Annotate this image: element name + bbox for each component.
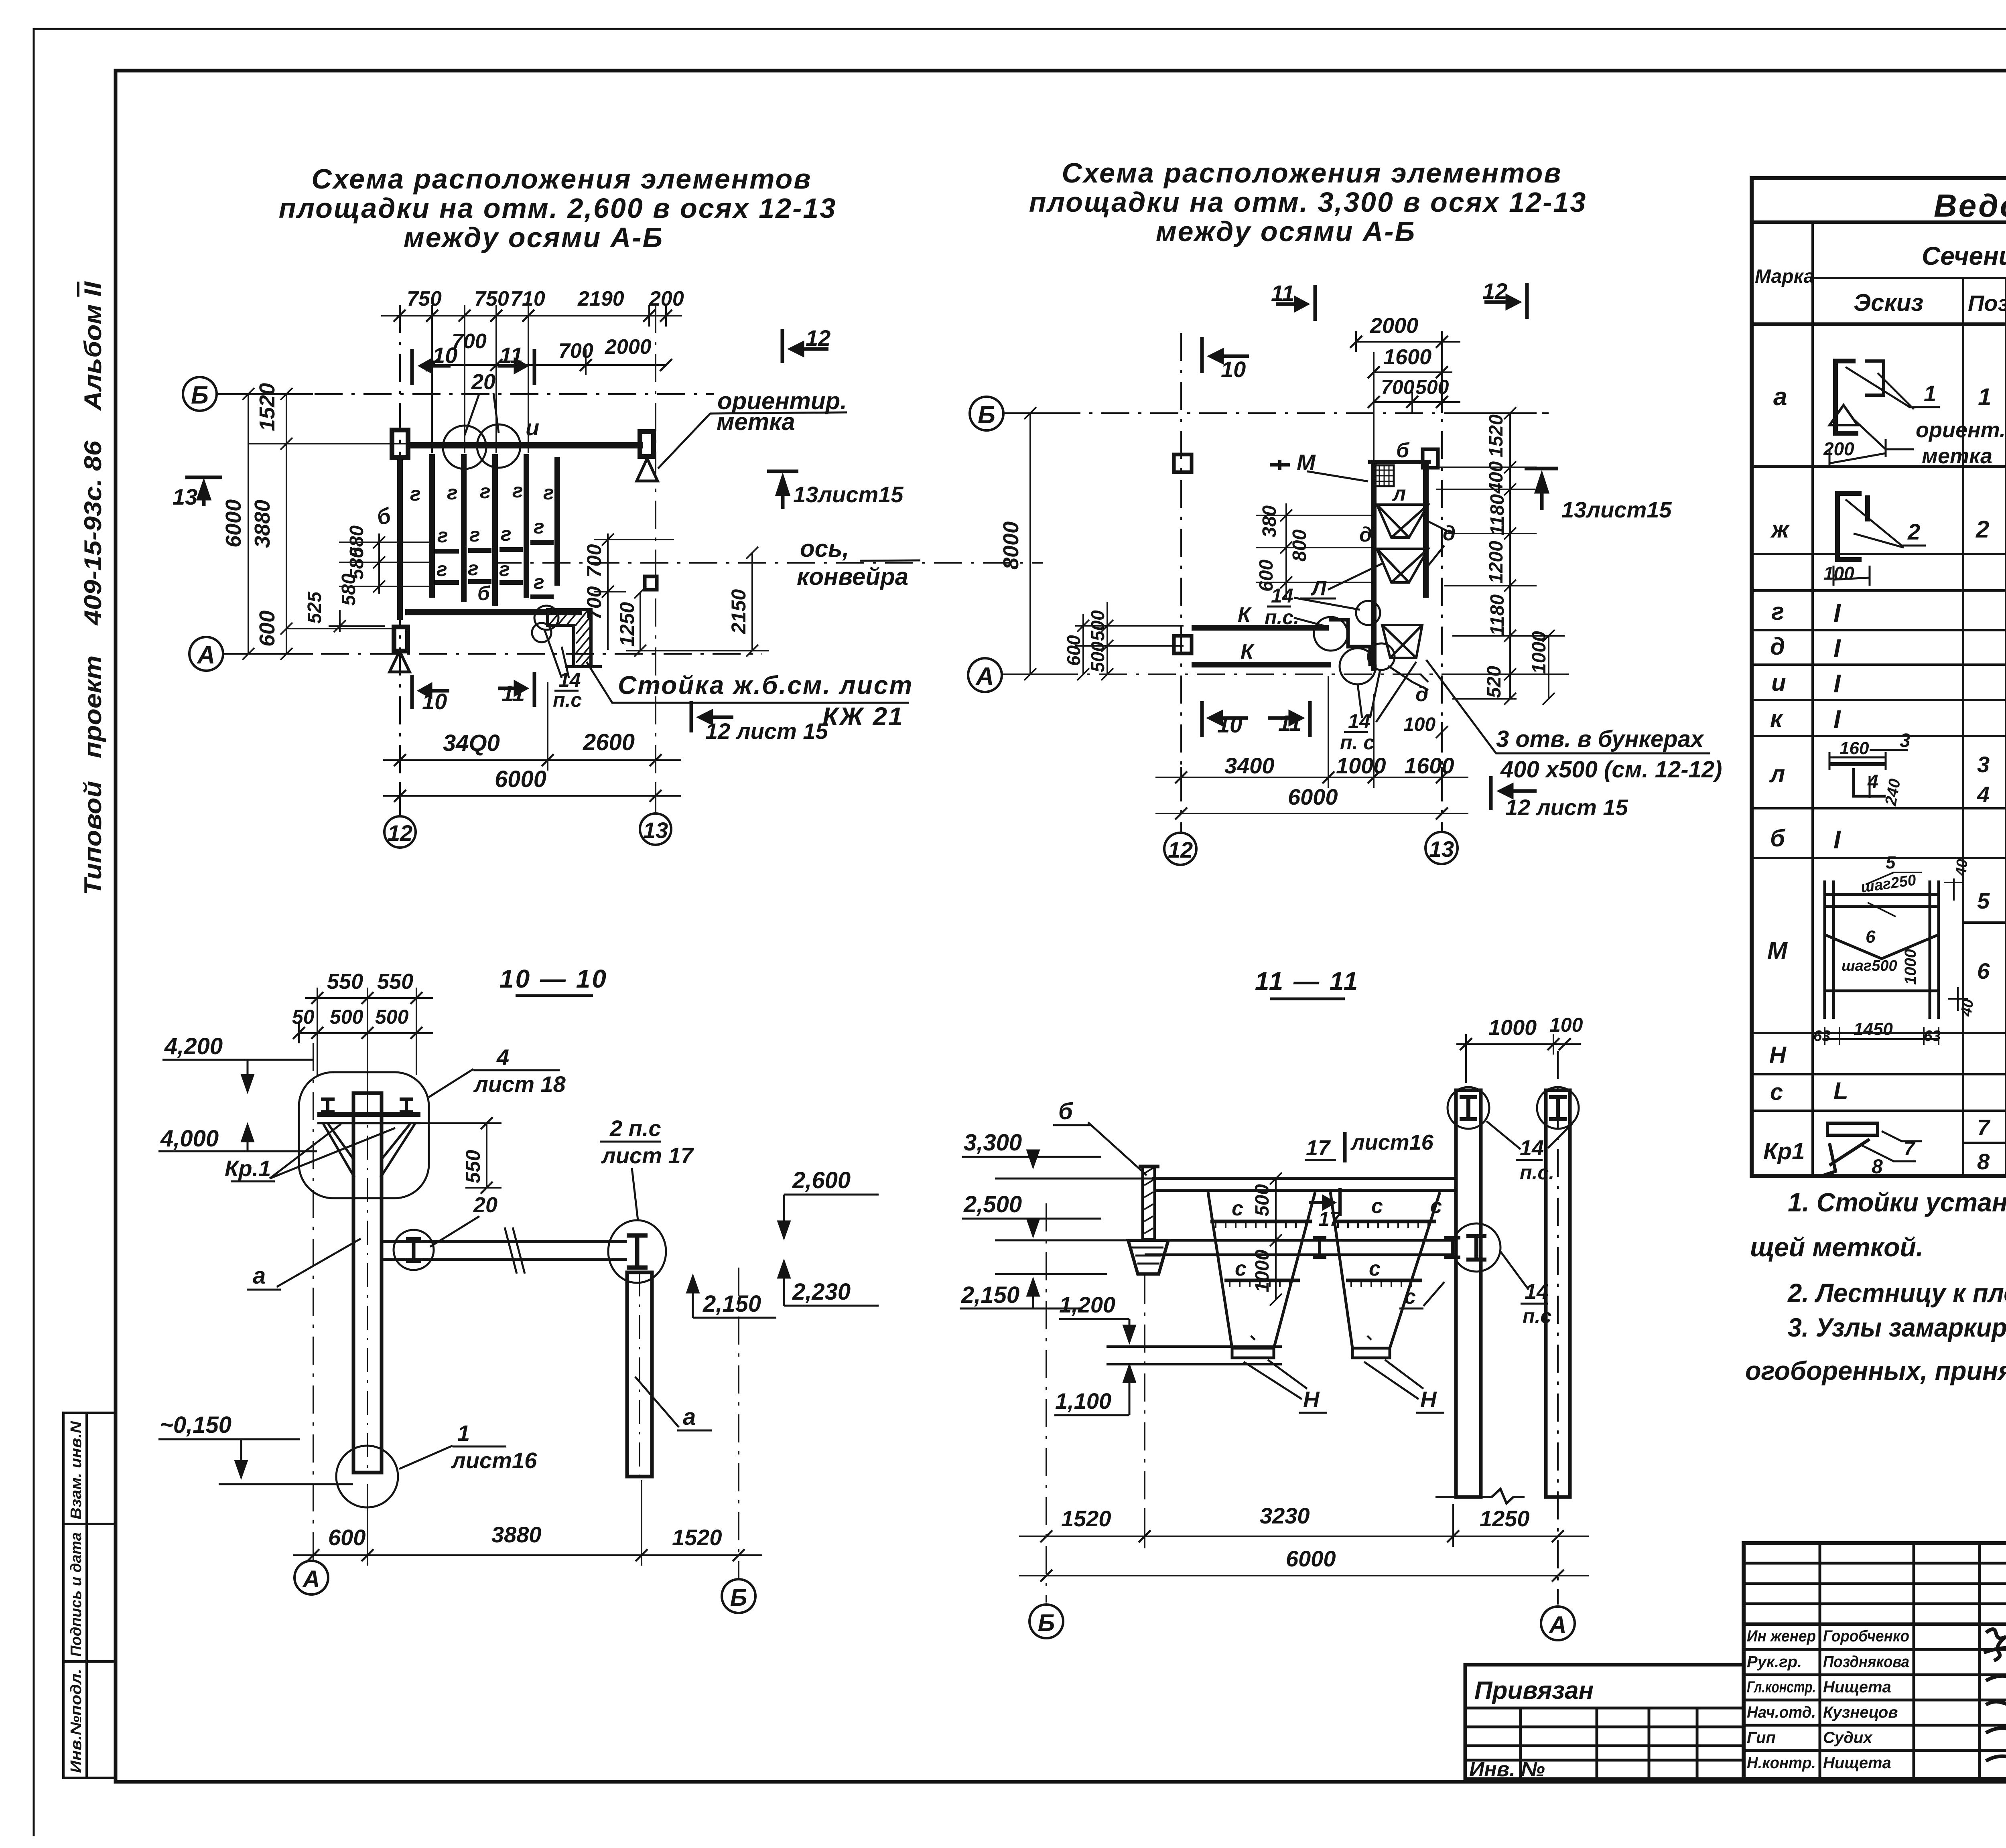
svg-text:10: 10 bbox=[1221, 357, 1246, 382]
svg-text:580: 580 bbox=[338, 574, 359, 606]
left dim chain 8000 bbox=[1001, 407, 1059, 680]
svg-text:п.с: п.с bbox=[553, 689, 582, 711]
svg-text:750: 750 bbox=[474, 287, 509, 310]
circle I at col1 mid bbox=[1452, 1223, 1500, 1272]
plan2 circle 12 bbox=[1164, 833, 1196, 865]
row a: sketch channel with orient mark bbox=[1829, 361, 1884, 433]
svg-text:6: 6 bbox=[1866, 927, 1876, 947]
svg-text:40: 40 bbox=[1953, 858, 1971, 877]
section mark 12 top bbox=[1484, 283, 1527, 319]
axis circle Б bbox=[183, 377, 217, 411]
svg-text:3880: 3880 bbox=[491, 1522, 542, 1547]
plan2 axis Б dash-dot bbox=[1003, 412, 1549, 414]
svg-text:12 лист 15: 12 лист 15 bbox=[1505, 795, 1628, 820]
top dims 1000 100 bbox=[1456, 1034, 1581, 1083]
svg-text:14: 14 bbox=[558, 669, 581, 691]
extension lines down from dims bbox=[432, 316, 528, 453]
svg-text:Эскиз: Эскиз bbox=[1854, 289, 1923, 316]
svg-text:огоборенных, приняты по с: огоборенных, приняты по серии 2,440-1 вы… bbox=[1745, 1356, 2006, 1385]
detail circle left joint with I bbox=[394, 1230, 434, 1270]
svg-text:4: 4 bbox=[1867, 771, 1878, 793]
platform right edge beam bbox=[1423, 460, 1429, 598]
staff column lines bbox=[1819, 1543, 1821, 1779]
svg-text:750: 750 bbox=[407, 287, 442, 310]
svg-text:380: 380 bbox=[1259, 505, 1280, 538]
section mark 11 top bbox=[497, 349, 534, 385]
row л: эскиз tee sketch bbox=[1829, 764, 1886, 796]
mark 12 лист 15 bbox=[691, 701, 733, 732]
svg-text:5: 5 bbox=[1977, 888, 1990, 913]
svg-text:14: 14 bbox=[1525, 1280, 1549, 1304]
beam break symbol bbox=[505, 1227, 525, 1274]
plan2 circle А bbox=[968, 658, 1002, 692]
svg-text:20: 20 bbox=[473, 1193, 497, 1217]
node circles bbox=[1356, 601, 1380, 625]
bunker 1 mesh lines bbox=[1210, 1220, 1312, 1223]
bottom beam б bbox=[405, 609, 582, 615]
svg-text:3. Узлы замаркированные на: 3. Узлы замаркированные на данном листе … bbox=[1788, 1312, 2006, 1342]
svg-text:с: с bbox=[1369, 1257, 1381, 1280]
second dim line 700 700 2000 bbox=[432, 364, 666, 366]
axis Б dash-dot bbox=[217, 393, 714, 395]
svg-text:13лист15: 13лист15 bbox=[793, 482, 904, 507]
svg-text:метка: метка bbox=[1922, 444, 1992, 468]
svg-text:10 — 10: 10 — 10 bbox=[499, 964, 608, 993]
svg-text:А: А bbox=[197, 641, 215, 669]
svg-text:500: 500 bbox=[1087, 610, 1108, 641]
svg-text:7: 7 bbox=[1977, 1115, 1991, 1140]
svg-text:Ведомость элементов: Ведомость элементов bbox=[1934, 188, 2006, 223]
svg-text:А: А bbox=[1548, 1611, 1566, 1638]
column 1 bbox=[1456, 1090, 1481, 1497]
svg-text:700: 700 bbox=[583, 544, 605, 578]
svg-text:Нищета: Нищета bbox=[1823, 1678, 1891, 1696]
svg-text:550: 550 bbox=[327, 970, 363, 994]
svg-text:525: 525 bbox=[304, 591, 325, 624]
svg-text:11: 11 bbox=[499, 343, 523, 368]
mark 12 лист 15 bottom bbox=[1491, 776, 1537, 810]
svg-text:Поз: Поз bbox=[1968, 290, 2006, 316]
beam К upper bbox=[1192, 625, 1329, 631]
column 2 bbox=[1546, 1090, 1570, 1497]
right column а bbox=[627, 1272, 652, 1477]
dim 580 x3 left bbox=[339, 534, 432, 594]
svg-text:Н.контр.: Н.контр. bbox=[1747, 1754, 1816, 1772]
staff grid upper empty rows bbox=[1744, 1562, 2006, 1565]
svg-text:100: 100 bbox=[1823, 563, 1854, 584]
platform left edge beam bbox=[1371, 460, 1377, 671]
bottom dim 3400 2600 bbox=[383, 682, 681, 771]
svg-text:600: 600 bbox=[1063, 635, 1084, 666]
svg-text:г: г bbox=[1771, 598, 1784, 625]
svg-text:Схема расположения элементо: Схема расположения элементов bbox=[1062, 157, 1562, 189]
svg-text:г: г bbox=[437, 524, 448, 547]
svg-text:1520: 1520 bbox=[1486, 414, 1507, 457]
svg-text:г: г bbox=[499, 558, 510, 580]
svg-text:с: с bbox=[1430, 1195, 1442, 1218]
svg-text:г: г bbox=[512, 479, 523, 502]
svg-text:600: 600 bbox=[255, 611, 279, 647]
svg-text:и: и bbox=[1771, 669, 1786, 696]
svg-text:14: 14 bbox=[1520, 1136, 1544, 1160]
svg-text:6: 6 bbox=[1977, 958, 1990, 984]
svg-text:Судих: Судих bbox=[1823, 1729, 1873, 1747]
bottom dims 600 3880 1520 bbox=[293, 1480, 762, 1566]
svg-text:щей меткой.: щей меткой. bbox=[1750, 1232, 1923, 1262]
svg-text:11: 11 bbox=[1278, 710, 1301, 736]
svg-text:160: 160 bbox=[1840, 738, 1869, 758]
svg-text:г: г bbox=[468, 557, 479, 580]
svg-text:500: 500 bbox=[375, 1006, 409, 1028]
svg-text:500: 500 bbox=[1415, 376, 1449, 398]
svg-text:с: с bbox=[1770, 1079, 1783, 1105]
svg-text:п.с.: п.с. bbox=[1265, 606, 1299, 629]
svg-text:10: 10 bbox=[432, 343, 457, 368]
svg-text:5: 5 bbox=[1886, 853, 1896, 872]
bunker 1 bbox=[1208, 1192, 1315, 1358]
svg-text:Гип: Гип bbox=[1747, 1729, 1776, 1747]
row ж: sketch leader bbox=[1846, 499, 1926, 548]
svg-text:11: 11 bbox=[1271, 280, 1294, 306]
top dimension line 750 750 710 2190 200 bbox=[381, 305, 682, 453]
svg-text:700: 700 bbox=[1381, 376, 1415, 398]
г beams vertical (5) bbox=[432, 454, 557, 606]
axis А dash-dot bbox=[223, 653, 762, 655]
axis Б vertical dash-dot bbox=[1046, 1203, 1047, 1603]
svg-text:г: г bbox=[501, 523, 512, 545]
svg-text:3: 3 bbox=[1900, 730, 1911, 751]
svg-text:200: 200 bbox=[1823, 438, 1854, 459]
svg-text:13: 13 bbox=[173, 484, 197, 509]
svg-text:2,500: 2,500 bbox=[963, 1191, 1022, 1217]
svg-text:I: I bbox=[1833, 634, 1841, 663]
svg-text:Б: Б bbox=[1038, 1609, 1055, 1636]
svg-text:2000: 2000 bbox=[1370, 314, 1418, 338]
svg-text:Позднякова: Позднякова bbox=[1823, 1653, 1909, 1671]
platform top edge bbox=[1368, 460, 1431, 464]
svg-text:б: б bbox=[1058, 1098, 1074, 1124]
svg-text:Нищета: Нищета bbox=[1823, 1754, 1891, 1772]
conveyor axis dash-dot bbox=[493, 562, 1043, 564]
svg-text:лист 17: лист 17 bbox=[601, 1143, 694, 1168]
label М with tick bbox=[1270, 460, 1290, 470]
axis circle 12 bbox=[384, 816, 416, 848]
svg-text:700: 700 bbox=[583, 586, 605, 620]
svg-text:12 лист 15: 12 лист 15 bbox=[705, 718, 828, 744]
plan2 axis А dash-dot bbox=[1001, 673, 1553, 675]
svg-text:лист 18: лист 18 bbox=[473, 1071, 566, 1097]
svg-text:Привязан: Привязан bbox=[1474, 1677, 1594, 1704]
svg-text:100: 100 bbox=[1549, 1014, 1583, 1036]
svg-text:1520: 1520 bbox=[255, 383, 279, 431]
svg-text:3 отв. в бункерах: 3 отв. в бункерах bbox=[1496, 726, 1705, 752]
section mark 10 bbox=[1202, 337, 1249, 373]
svg-text:между осями А-Б: между осями А-Б bbox=[1156, 216, 1416, 247]
svg-text:800: 800 bbox=[1289, 529, 1310, 562]
svg-text:А: А bbox=[302, 1566, 320, 1592]
svg-text:а: а bbox=[1773, 383, 1787, 411]
stamp box Подпись и дата bbox=[63, 1524, 116, 1661]
svg-text:а: а bbox=[253, 1263, 266, 1289]
section marks 10 11 bottom bbox=[1202, 701, 1310, 737]
svg-text:8: 8 bbox=[1872, 1155, 1883, 1178]
mesh hatched square bbox=[1375, 465, 1394, 486]
signatures squiggles bbox=[1984, 1629, 2006, 1769]
leader 3 отв bbox=[1426, 660, 1710, 753]
svg-text:500: 500 bbox=[330, 1006, 363, 1028]
dim 500 1000 rotated bbox=[1270, 1172, 1282, 1306]
svg-text:63: 63 bbox=[1924, 1028, 1941, 1045]
svg-text:1250: 1250 bbox=[616, 602, 638, 647]
beam и bbox=[409, 442, 643, 448]
svg-text:550: 550 bbox=[462, 1150, 484, 1183]
svg-text:2600: 2600 bbox=[583, 729, 635, 755]
I symbol on mid beam bbox=[1313, 1238, 1326, 1257]
dim 1250 bbox=[626, 586, 769, 657]
svg-text:13: 13 bbox=[643, 818, 668, 843]
column 12/Б square bbox=[392, 430, 408, 457]
section mark 12 top right bbox=[782, 329, 828, 363]
svg-text:1600: 1600 bbox=[1404, 753, 1454, 778]
svg-text:1000: 1000 bbox=[1336, 753, 1386, 778]
stamp box Взам. инв. N bbox=[63, 1413, 116, 1524]
rail I-symbol right bbox=[400, 1099, 413, 1112]
section mark 13 left bbox=[185, 477, 222, 506]
svg-text:1000: 1000 bbox=[1902, 949, 1919, 985]
svg-text:Н: Н bbox=[1420, 1387, 1437, 1412]
svg-text:п.с: п.с bbox=[1523, 1305, 1551, 1327]
svg-text:13лист15: 13лист15 bbox=[1561, 497, 1672, 522]
svg-text:Б: Б bbox=[978, 401, 995, 429]
svg-text:Подпись и дата: Подпись и дата bbox=[68, 1532, 85, 1657]
dim 600 bottom left bbox=[286, 628, 405, 629]
svg-text:3880: 3880 bbox=[250, 500, 274, 548]
svg-text:14: 14 bbox=[1348, 710, 1370, 732]
svg-text:8000: 8000 bbox=[999, 521, 1023, 570]
svg-text:1180: 1180 bbox=[1487, 594, 1508, 636]
svg-text:Н: Н bbox=[1769, 1042, 1787, 1068]
bunker funnel 3 lower bbox=[1382, 625, 1422, 658]
svg-text:Инв. №: Инв. № bbox=[1469, 1758, 1545, 1781]
svg-text:17: 17 bbox=[1318, 1208, 1342, 1230]
bottom dim 6000 bbox=[1155, 807, 1468, 820]
bottom dims 3400 1000 1600 bbox=[1155, 676, 1468, 788]
mark 13 лист15 right bbox=[1525, 469, 1558, 510]
detail circle right joint with I bbox=[608, 1220, 666, 1283]
stamp box Инв. N подл. bbox=[63, 1661, 116, 1778]
svg-text:17: 17 bbox=[1306, 1136, 1331, 1160]
section mark 10 bottom bbox=[412, 675, 449, 709]
svg-text:г: г bbox=[447, 481, 458, 504]
svg-text:550: 550 bbox=[377, 970, 413, 994]
svg-text:2000: 2000 bbox=[605, 335, 652, 359]
svg-text:I: I bbox=[1833, 598, 1841, 627]
svg-text:1180: 1180 bbox=[1487, 494, 1508, 536]
svg-text:8: 8 bbox=[1977, 1149, 1990, 1174]
step connector п.с. bbox=[1329, 620, 1370, 666]
axis А vertical dash-dot bbox=[1557, 1051, 1559, 1605]
svg-text:400 х500 (см. 12-12): 400 х500 (см. 12-12) bbox=[1500, 757, 1722, 783]
detail circles at stojka bbox=[534, 606, 558, 630]
svg-text:40: 40 bbox=[1957, 998, 1977, 1018]
svg-text:конвейра: конвейра bbox=[797, 563, 908, 590]
svg-text:710: 710 bbox=[510, 287, 545, 310]
svg-text:4,000: 4,000 bbox=[160, 1126, 219, 1152]
table Ведомость элементов outer box bbox=[1752, 178, 2006, 1176]
svg-text:д: д bbox=[1415, 683, 1428, 706]
svg-text:1520: 1520 bbox=[672, 1525, 722, 1550]
svg-text:600: 600 bbox=[1256, 560, 1277, 592]
svg-text:1: 1 bbox=[457, 1420, 470, 1446]
svg-text:Гл.констр.: Гл.констр. bbox=[1747, 1678, 1816, 1696]
svg-text:3230: 3230 bbox=[1260, 1503, 1310, 1528]
staff rows bbox=[1744, 1623, 2006, 1626]
left stamp column bbox=[63, 1413, 116, 1778]
svg-text:с: с bbox=[1371, 1195, 1383, 1218]
svg-text:Горобченко: Горобченко bbox=[1823, 1627, 1909, 1645]
svg-text:4: 4 bbox=[496, 1045, 509, 1070]
svg-text:Ин женер: Ин женер bbox=[1747, 1627, 1816, 1645]
plan2 axis 13 vertical bbox=[1441, 333, 1443, 833]
dim 2150 bbox=[746, 547, 758, 657]
left stojka base bbox=[1128, 1240, 1168, 1274]
stojka axis dash-dot bbox=[1144, 1276, 1145, 1548]
svg-text:с: с bbox=[1235, 1257, 1247, 1280]
svg-text:ось,: ось, bbox=[800, 535, 849, 562]
svg-text:6000: 6000 bbox=[1286, 1546, 1336, 1571]
svg-text:520: 520 bbox=[1484, 666, 1505, 698]
bottom dims 1520 3230 1250 bbox=[1019, 1504, 1589, 1547]
svg-text:I: I bbox=[1833, 669, 1841, 698]
svg-text:500: 500 bbox=[1087, 641, 1108, 672]
svg-text:10: 10 bbox=[1217, 712, 1242, 737]
svg-text:63: 63 bbox=[1813, 1028, 1830, 1045]
svg-text:12: 12 bbox=[1168, 837, 1193, 862]
dim 525 bbox=[329, 610, 385, 632]
svg-text:1: 1 bbox=[1924, 381, 1936, 406]
svg-text:М: М bbox=[1767, 937, 1788, 964]
svg-text:I: I bbox=[1833, 705, 1841, 734]
svg-text:1,200: 1,200 bbox=[1059, 1292, 1115, 1317]
svg-text:6000: 6000 bbox=[221, 499, 246, 548]
plan2 axis 12 vertical bbox=[1180, 333, 1182, 833]
svg-text:п.с.: п.с. bbox=[1520, 1161, 1554, 1184]
svg-text:М: М bbox=[1297, 450, 1316, 475]
svg-text:500: 500 bbox=[1252, 1184, 1273, 1216]
svg-text:г: г bbox=[534, 515, 544, 538]
svg-text:г: г bbox=[469, 523, 480, 546]
mid beam bbox=[1145, 1239, 1455, 1242]
plan2 circle 13 bbox=[1425, 832, 1458, 864]
section mark 11 top bbox=[1276, 285, 1315, 321]
svg-text:12: 12 bbox=[1482, 278, 1507, 304]
row ж: sketch angle pair bbox=[1837, 493, 1868, 560]
column а (main) bbox=[353, 1093, 382, 1473]
svg-text:Нач.отд.: Нач.отд. bbox=[1747, 1704, 1816, 1721]
svg-text:площадки на отм. 2,600 в: площадки на отм. 2,600 в осях 12-13 bbox=[279, 193, 837, 224]
bunker funnel 1 bbox=[1377, 505, 1428, 538]
axis А vertical dash-dot bbox=[313, 1043, 314, 1562]
svg-text:3,300: 3,300 bbox=[964, 1130, 1022, 1156]
svg-text:б: б bbox=[1396, 439, 1410, 462]
svg-text:1600: 1600 bbox=[1383, 345, 1431, 369]
svg-text:11 — 11: 11 — 11 bbox=[1255, 967, 1359, 996]
column square 12-upper bbox=[1174, 454, 1192, 472]
svg-text:10: 10 bbox=[422, 689, 447, 714]
svg-text:площадки на отм. 3,300 в о: площадки на отм. 3,300 в осях 12-13 bbox=[1029, 187, 1587, 218]
orient mark triangle at column 12А bbox=[390, 651, 410, 672]
svg-text:700: 700 bbox=[558, 339, 593, 363]
svg-text:6000: 6000 bbox=[1288, 784, 1338, 809]
svg-text:2190: 2190 bbox=[577, 287, 624, 310]
column square 12-lower bbox=[1174, 636, 1192, 653]
svg-text:шаг500: шаг500 bbox=[1842, 957, 1897, 974]
svg-text:г: г bbox=[534, 571, 544, 593]
svg-text:100: 100 bbox=[1403, 714, 1435, 735]
svg-text:1250: 1250 bbox=[1480, 1506, 1530, 1531]
platform top beam bbox=[1152, 1177, 1456, 1180]
bunker level lines bbox=[1107, 1345, 1282, 1348]
svg-text:2: 2 bbox=[1907, 519, 1920, 544]
mark 17 mid bbox=[1309, 1188, 1340, 1216]
row М: mesh sketch bbox=[1825, 880, 1939, 1019]
circle Б bbox=[1029, 1605, 1063, 1638]
svg-text:1000: 1000 bbox=[1252, 1250, 1273, 1292]
svg-text:2,150: 2,150 bbox=[703, 1291, 761, 1317]
svg-text:лист16: лист16 bbox=[1350, 1130, 1434, 1154]
circle I col2 top bbox=[1537, 1087, 1579, 1129]
svg-text:и: и bbox=[526, 415, 539, 440]
column 12/А square bbox=[394, 627, 408, 651]
svg-text:Типовой проект 409-15-93с: Типовой проект 409-15-93с. 86 Альбом II bbox=[79, 281, 106, 895]
svg-text:2,230: 2,230 bbox=[792, 1279, 851, 1305]
left stojka post bbox=[1143, 1166, 1155, 1239]
svg-text:Рук.гр.: Рук.гр. bbox=[1747, 1653, 1802, 1671]
svg-text:Взам. инв.N: Взам. инв.N bbox=[68, 1420, 85, 1519]
svg-text:400: 400 bbox=[1486, 461, 1507, 494]
svg-text:6000: 6000 bbox=[495, 766, 546, 792]
svg-text:г: г bbox=[437, 558, 447, 580]
svg-text:Кр.1: Кр.1 bbox=[225, 1156, 271, 1181]
svg-text:L: L bbox=[1833, 1077, 1848, 1104]
svg-text:1. Стойки установить в соот: 1. Стойки установить в соответствии с ор… bbox=[1788, 1187, 2006, 1217]
small column square on axis 13 conveyor bbox=[645, 576, 657, 590]
dim 550 right of callout bbox=[420, 1117, 501, 1194]
svg-text:1520: 1520 bbox=[1061, 1506, 1111, 1531]
svg-text:ориент.: ориент. bbox=[1916, 418, 2006, 442]
svg-text:1000: 1000 bbox=[1529, 631, 1550, 674]
svg-text:К: К bbox=[1238, 603, 1252, 627]
left inner dims 600 500 500 bbox=[1075, 602, 1184, 680]
dim 700/700 vertical chain right of plan bbox=[594, 534, 674, 650]
svg-text:12: 12 bbox=[388, 820, 412, 846]
svg-text:2,150: 2,150 bbox=[961, 1282, 1019, 1308]
svg-text:4: 4 bbox=[1977, 782, 1990, 807]
svg-text:б: б bbox=[1770, 825, 1786, 852]
svg-text:Сечение: Сечение bbox=[1922, 241, 2006, 270]
svg-text:Марка: Марка bbox=[1755, 266, 1814, 287]
cap beam bbox=[317, 1112, 420, 1117]
stojka column hatched Г shape bbox=[548, 610, 591, 667]
svg-text:А: А bbox=[975, 663, 994, 690]
circle I col1 top bbox=[1448, 1087, 1489, 1129]
detail callout rounded square bbox=[299, 1072, 429, 1198]
column square 13-upper bbox=[1423, 449, 1438, 468]
axis Б vertical dash-dot bbox=[738, 1268, 739, 1580]
table vertical grid lines bbox=[1811, 222, 1814, 1176]
svg-text:7: 7 bbox=[1904, 1137, 1916, 1160]
svg-text:КЖ 21: КЖ 21 bbox=[822, 702, 904, 731]
